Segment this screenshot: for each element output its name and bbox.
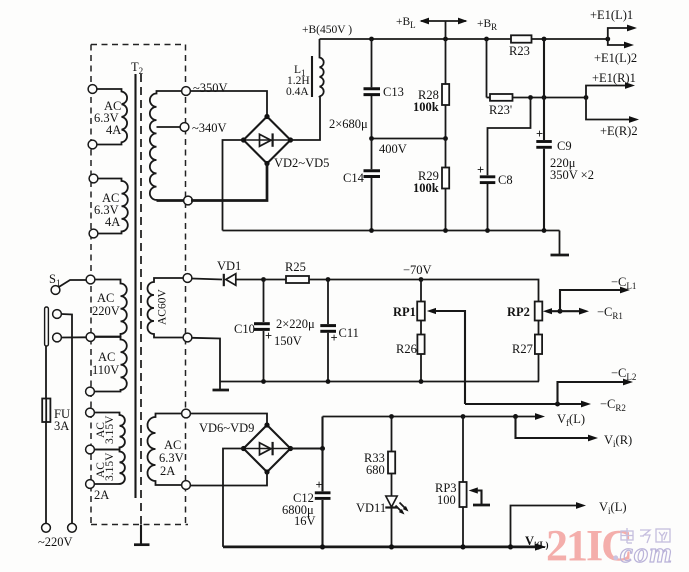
svg-text:+E1(R)1: +E1(R)1 xyxy=(592,71,636,85)
svg-text:AC: AC xyxy=(98,350,115,364)
fuse FU 3A xyxy=(42,399,70,434)
wire fuse to mains left terminal xyxy=(45,422,47,523)
svg-text:6.3V: 6.3V xyxy=(159,451,184,465)
svg-text:400V: 400V xyxy=(379,142,407,156)
wire node to R23p xyxy=(486,39,488,98)
svg-text:100k: 100k xyxy=(413,181,439,195)
wire AC60V top to VD1 xyxy=(192,279,222,280)
fork output +E1(L)1 xyxy=(590,8,637,39)
svg-text:−CL1: −CL1 xyxy=(611,275,636,291)
transformer T2 core xyxy=(136,74,142,525)
bottom negative rail xyxy=(223,543,546,550)
wire bridge2 right corner to plus rail xyxy=(291,417,323,449)
svg-text:Vi(L): Vi(L) xyxy=(525,534,549,550)
+BL +BR tap xyxy=(420,18,468,39)
choke L1 1.2H 0.4A xyxy=(286,56,324,98)
svg-text:+E(R)2: +E(R)2 xyxy=(600,124,638,138)
svg-text:350V ×2: 350V ×2 xyxy=(550,168,594,182)
node after R23p xyxy=(528,95,533,100)
core ground xyxy=(134,525,150,545)
bottom positive rail xyxy=(323,413,546,420)
svg-text:C10: C10 xyxy=(234,322,255,336)
resistor R29 xyxy=(413,139,449,231)
terminal circle AC110V bottom xyxy=(86,387,95,396)
resistor R23 xyxy=(511,35,532,42)
terminal circle HV bottom xyxy=(184,196,193,205)
capacitor C12 xyxy=(282,449,331,547)
svg-text:2×220μ: 2×220μ xyxy=(276,317,315,331)
terminal circle AC6.3V2A bottom xyxy=(182,481,191,490)
capacitor C13 xyxy=(364,39,404,139)
node at C9 crossing xyxy=(542,95,547,100)
svg-text:C13: C13 xyxy=(383,85,404,99)
terminal circle AC3.15V bottom xyxy=(86,480,95,489)
LED VD11 xyxy=(356,496,409,547)
output Vi(L) xyxy=(511,500,627,547)
winding AC 6.3V 4A (upper) xyxy=(94,89,127,145)
winding AC 6.3V 4A (lower) xyxy=(94,179,128,234)
fork output +E1(L)2 xyxy=(594,39,637,65)
resistor R27 xyxy=(512,335,542,382)
svg-text:4A: 4A xyxy=(106,123,121,137)
svg-text:R26: R26 xyxy=(396,342,417,356)
capacitor C9 xyxy=(536,39,594,231)
terminal circle AC220V/AC110V junction xyxy=(86,333,95,342)
switch bar xyxy=(45,307,49,346)
node -70V xyxy=(419,277,424,282)
svg-text:R23': R23' xyxy=(489,103,512,117)
svg-text:VD2~VD5: VD2~VD5 xyxy=(274,156,329,170)
potentiometer RP1 xyxy=(393,280,465,405)
wire bridge bottom to HV winding bottom xyxy=(191,164,267,201)
svg-text:2×680μ: 2×680μ xyxy=(329,117,368,131)
svg-text:16V: 16V xyxy=(294,514,316,528)
wire 350V to bridge top xyxy=(190,91,267,117)
watermark chinese 电子网 xyxy=(621,528,670,543)
wire AC6.3V2A top to bridge2 xyxy=(190,414,267,426)
wire switch mid contact to mains right terminal xyxy=(61,314,72,523)
capacitor C14 xyxy=(343,139,380,231)
svg-text:+: + xyxy=(477,163,484,177)
svg-text:+: + xyxy=(536,127,543,141)
output -CR1 xyxy=(560,305,623,321)
capacitor C11 xyxy=(320,280,359,382)
terminal circle ~340V xyxy=(180,123,189,132)
svg-text:C11: C11 xyxy=(339,326,359,340)
winding HV 350V/340V secondary xyxy=(150,91,184,201)
svg-text:Vi(L): Vi(L) xyxy=(599,500,627,516)
svg-text:2A: 2A xyxy=(94,488,109,502)
svg-text:+B(450V ): +B(450V ) xyxy=(302,24,352,36)
terminal circle ~350V xyxy=(182,87,191,96)
winding AC 110V xyxy=(92,337,127,392)
wire bridge2 bottom to AC6.3V2A bottom xyxy=(190,472,267,486)
wire AC60V bottom to mid ground xyxy=(192,338,220,382)
svg-text:+E1(L)2: +E1(L)2 xyxy=(594,51,637,65)
svg-text:+: + xyxy=(265,329,272,343)
node C12 top xyxy=(320,446,325,451)
svg-text:3.15V: 3.15V xyxy=(104,415,116,444)
wire switch top contact to AC220V top xyxy=(59,280,86,287)
wire bridge left corner to ground rail xyxy=(223,140,244,231)
winding AC 3.15V (lower) xyxy=(94,450,125,503)
svg-text:3.15V: 3.15V xyxy=(104,452,116,481)
fork output +E(R)2 xyxy=(586,98,639,139)
mains terminal left xyxy=(42,523,51,532)
bridge rectifier VD6~VD9 xyxy=(241,422,293,474)
wiper rail RP1 to -CR2 xyxy=(465,397,626,413)
svg-text:.: . xyxy=(612,534,620,567)
svg-text:680: 680 xyxy=(366,463,385,477)
wire choke top to +B rail xyxy=(319,39,321,57)
mid section common rail xyxy=(220,379,539,384)
fork output +E1(R)1 xyxy=(586,71,636,98)
winding AC60V xyxy=(148,278,184,338)
wire R23p to fork E1R xyxy=(513,97,587,99)
svg-text:+E1(L)1: +E1(L)1 xyxy=(590,8,633,22)
svg-text:+BL: +BL xyxy=(396,16,416,30)
svg-text:0.4A: 0.4A xyxy=(286,86,309,98)
node C11 top xyxy=(326,277,331,282)
svg-text:−CR2: −CR2 xyxy=(600,397,626,413)
svg-text:AC: AC xyxy=(97,291,114,305)
node fork E1L xyxy=(605,37,610,42)
terminal circle AC220V top xyxy=(86,275,95,284)
svg-text:3A: 3A xyxy=(54,419,69,433)
svg-text:VD6~VD9: VD6~VD9 xyxy=(199,421,254,435)
output -CL1 xyxy=(560,275,636,311)
svg-text:+: + xyxy=(331,331,338,345)
terminal circle AC60V bottom xyxy=(183,333,192,342)
svg-text:AC: AC xyxy=(164,438,181,452)
diode VD1 xyxy=(217,259,264,286)
svg-text:110V: 110V xyxy=(92,363,119,377)
ground rail top section xyxy=(223,228,560,233)
ground symbol top section xyxy=(551,231,570,256)
svg-text:C14: C14 xyxy=(343,171,365,185)
node RP2 wiper xyxy=(558,309,563,314)
+B rail after R23 xyxy=(532,38,608,40)
potentiometer RP3 xyxy=(435,417,490,547)
svg-text:R25: R25 xyxy=(285,260,306,274)
svg-text:RP2: RP2 xyxy=(507,305,530,319)
wire switch low contact to AC220V bottom xyxy=(61,336,86,338)
winding AC 6.3V 2A xyxy=(148,414,184,486)
svg-text:150V: 150V xyxy=(274,334,302,348)
wire bridge right corner to choke bottom xyxy=(291,96,321,140)
resistor R23p xyxy=(487,94,513,117)
node at C13 top xyxy=(369,37,374,42)
svg-text:R27: R27 xyxy=(512,342,533,356)
terminal circle AC60V top xyxy=(183,274,192,283)
resistor R25 xyxy=(264,260,422,283)
resistor R26 xyxy=(396,335,425,382)
switch mid contact xyxy=(53,310,62,319)
node at R28 top xyxy=(443,37,448,42)
switch low contact xyxy=(53,333,62,342)
mains terminal right xyxy=(68,523,77,532)
svg-text:−CL2: −CL2 xyxy=(611,366,636,382)
switch top contact xyxy=(51,286,60,295)
resistor R28 xyxy=(413,39,449,139)
output Vi(R) xyxy=(516,417,633,450)
svg-text:4A: 4A xyxy=(105,215,120,229)
svg-text:VD1: VD1 xyxy=(217,259,241,273)
svg-text:−70V: −70V xyxy=(403,263,432,277)
node feeding R23p xyxy=(484,37,489,42)
svg-text:T2: T2 xyxy=(131,60,143,76)
terminal circle AC6.3V2A top xyxy=(182,409,191,418)
terminal circles winding2 xyxy=(89,174,98,183)
ground symbol mid section xyxy=(213,382,230,391)
transformer dashed enclosure xyxy=(91,45,188,525)
svg-text:~350V: ~350V xyxy=(193,81,228,95)
winding AC 220V xyxy=(92,280,127,337)
svg-text:100k: 100k xyxy=(413,100,439,114)
svg-text:C8: C8 xyxy=(498,173,513,187)
mid rail 400V xyxy=(369,136,448,156)
wire -70V to RP2 xyxy=(421,280,539,302)
svg-text:~340V: ~340V xyxy=(192,121,227,135)
svg-text:+BR: +BR xyxy=(477,18,497,32)
terminal circle AC3.15V top xyxy=(86,408,95,417)
output -CL2 xyxy=(558,366,637,404)
node at R23 output xyxy=(542,37,547,42)
terminal circles winding1 xyxy=(88,85,97,94)
bridge rectifier VD2~VD5 xyxy=(241,114,293,166)
svg-text:R23: R23 xyxy=(509,44,530,58)
capacitor C10 xyxy=(234,280,272,382)
svg-text:220V: 220V xyxy=(92,304,120,318)
node VD1/C10 xyxy=(261,277,266,282)
svg-text:~220V: ~220V xyxy=(38,535,73,549)
+B rail xyxy=(320,38,512,40)
svg-text:+: + xyxy=(316,478,323,492)
svg-text:2A: 2A xyxy=(160,464,175,478)
svg-text:C9: C9 xyxy=(557,139,572,153)
terminal circle AC3.15V mid xyxy=(86,445,95,454)
svg-text:−CR1: −CR1 xyxy=(597,305,623,321)
svg-text:VD11: VD11 xyxy=(356,501,386,515)
potentiometer RP2 xyxy=(507,302,560,335)
svg-text:Vf(L): Vf(L) xyxy=(557,412,585,428)
node fork E1R xyxy=(584,95,589,100)
svg-text:100: 100 xyxy=(437,493,456,507)
svg-text:Vi(R): Vi(R) xyxy=(604,433,632,449)
svg-text:AC60V: AC60V xyxy=(157,289,169,325)
winding AC 3.15V (upper) xyxy=(95,413,125,450)
svg-text:RP1: RP1 xyxy=(393,305,416,319)
capacitor C8 xyxy=(477,98,531,231)
wire bar to fuse xyxy=(45,346,47,399)
resistor R33 xyxy=(364,417,395,496)
wire bridge2 left corner to negative rail xyxy=(223,449,244,547)
